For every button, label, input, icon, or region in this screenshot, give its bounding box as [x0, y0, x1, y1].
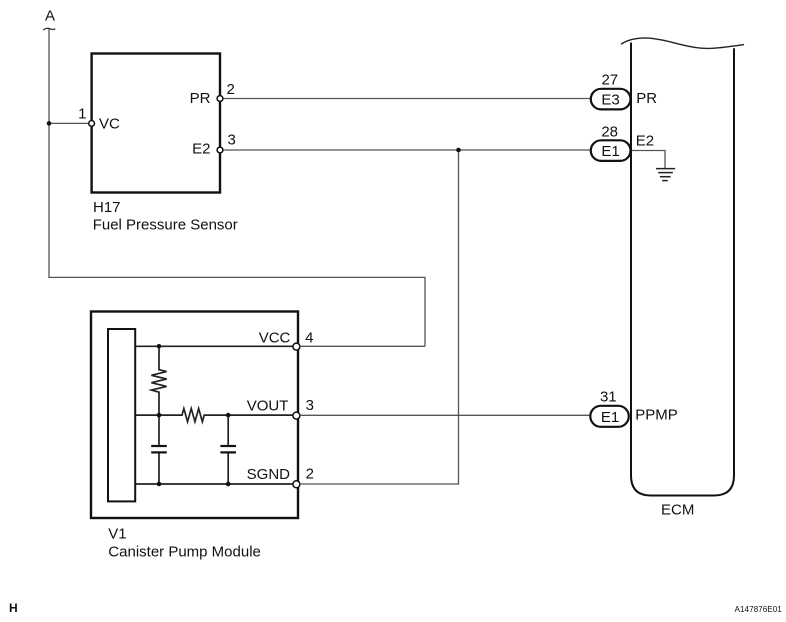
svg-text:1: 1 [78, 106, 86, 123]
svg-text:E3: E3 [601, 91, 619, 108]
svg-text:VCC: VCC [259, 330, 291, 347]
svg-text:A: A [45, 8, 55, 25]
svg-text:31: 31 [600, 388, 617, 405]
svg-text:3: 3 [228, 131, 236, 148]
svg-text:2: 2 [306, 466, 314, 483]
svg-text:A147876E01: A147876E01 [735, 605, 783, 614]
svg-text:E2: E2 [636, 133, 654, 150]
svg-text:ECM: ECM [661, 502, 694, 519]
svg-text:V1: V1 [108, 526, 126, 543]
svg-text:PR: PR [190, 90, 211, 107]
svg-text:3: 3 [306, 397, 314, 414]
svg-text:VC: VC [99, 116, 120, 133]
svg-text:H17: H17 [93, 199, 121, 216]
svg-text:Canister Pump Module: Canister Pump Module [108, 544, 261, 561]
svg-text:28: 28 [601, 123, 618, 140]
svg-text:E1: E1 [601, 409, 619, 426]
svg-text:4: 4 [305, 330, 313, 347]
svg-text:E1: E1 [601, 143, 619, 160]
svg-text:Fuel Pressure Sensor: Fuel Pressure Sensor [93, 217, 238, 234]
svg-text:SGND: SGND [247, 466, 291, 483]
svg-text:VOUT: VOUT [247, 397, 289, 414]
svg-text:27: 27 [601, 72, 618, 89]
svg-text:2: 2 [227, 81, 235, 98]
svg-text:H: H [9, 601, 18, 615]
svg-text:PR: PR [636, 90, 657, 107]
svg-text:E2: E2 [192, 141, 210, 158]
svg-text:PPMP: PPMP [635, 407, 678, 424]
